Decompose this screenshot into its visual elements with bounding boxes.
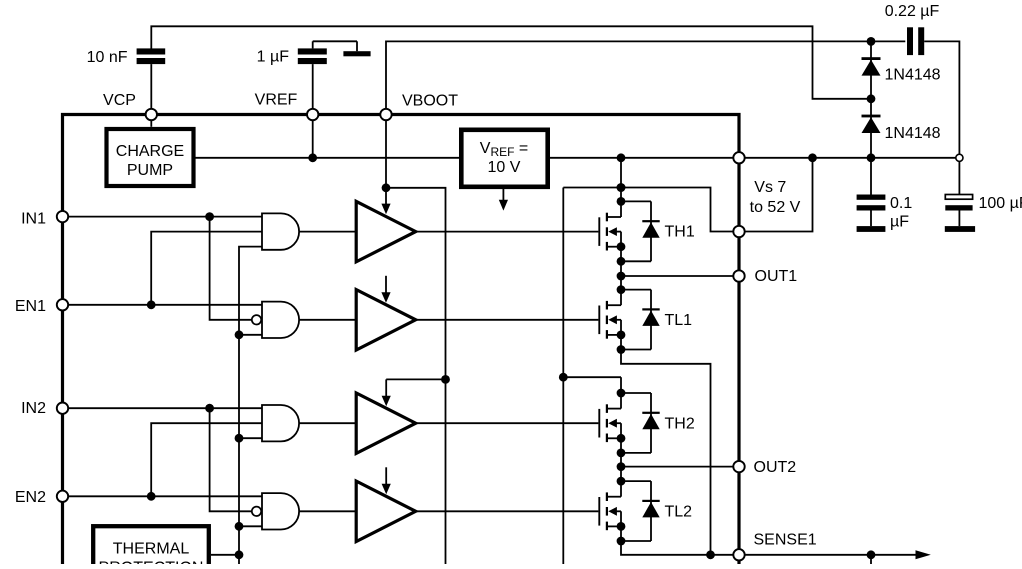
svg-text:1N4148: 1N4148: [885, 125, 941, 142]
wire IN2 row: [68, 407, 262, 409]
capacitor 0.1 uF: [870, 158, 872, 195]
capacitor 1 uF: [298, 48, 327, 54]
svg-text:VBOOT: VBOOT: [402, 92, 458, 109]
AND gate A3: [262, 405, 299, 441]
wire VBOOT internal riser: [385, 120, 387, 188]
wire TL2 source to SENSE1: [621, 541, 733, 555]
svg-text:EN2: EN2: [15, 489, 46, 506]
svg-text:to 52 V: to 52 V: [750, 199, 801, 216]
capacitor 100 uF electrolytic: [958, 162, 960, 195]
wire TH2 drain feed: [563, 376, 621, 378]
wire sense stub down: [870, 555, 872, 564]
pin EN2: [57, 491, 68, 502]
AND gate A2: [262, 302, 299, 338]
pin OUT2: [733, 461, 744, 472]
wire EN2 to gate3 middle: [151, 423, 262, 496]
wire TH1 source to OUT1 to TL1: [620, 261, 622, 289]
pin IN2: [57, 403, 68, 414]
wire gate1 to buffer1: [299, 231, 356, 233]
svg-text:OUT2: OUT2: [754, 459, 797, 476]
svg-text:Vs 7: Vs 7: [754, 179, 786, 196]
AND gate A4: [262, 493, 299, 529]
arrowhead sense: [916, 550, 931, 559]
svg-text:TH2: TH2: [665, 415, 695, 432]
pin VSB: [733, 226, 744, 237]
transistor TL1 with body diode: [598, 306, 600, 335]
wire IN1 row: [68, 216, 262, 218]
svg-text:0.22 µF: 0.22 µF: [885, 3, 940, 20]
node open circle: [956, 154, 963, 161]
wire TH2 drain riser: [620, 377, 622, 393]
wire to gate3 bottom: [239, 437, 262, 439]
diode D2 1N4148: [870, 99, 872, 158]
wire internal Vs rail: [563, 188, 739, 232]
svg-text:CHARGE: CHARGE: [116, 143, 184, 160]
wire gate2 to buffer2: [299, 319, 356, 321]
wire internal ref row: [196, 157, 460, 159]
node Vs: [808, 153, 817, 162]
wire bus to arrow B3: [386, 378, 445, 380]
block CHARGE PUMP: [107, 129, 194, 186]
pin IN1: [57, 211, 68, 222]
wire VREF riser: [312, 64, 314, 109]
wire thermal output: [211, 554, 239, 556]
AND gate A1: [262, 213, 299, 249]
wire VSB loop: [739, 158, 813, 232]
wire from 0.22uF to node: [924, 41, 959, 154]
svg-text:µF: µF: [890, 213, 909, 230]
wire to gate2 bottom: [239, 334, 262, 336]
wire IN1 to gate2 bubble: [210, 217, 252, 320]
ground for 1 uF: [343, 51, 370, 56]
arrow supply buffer B3: [385, 379, 387, 396]
wire EN1 row: [68, 304, 262, 306]
wire OUT1 row: [621, 275, 739, 277]
wire VBOOT to bus 445: [386, 188, 446, 564]
arrow VREF output: [502, 189, 504, 202]
svg-text:IN2: IN2: [21, 400, 46, 417]
svg-text:TL2: TL2: [665, 503, 693, 520]
arrow supply buffer B4: [385, 467, 387, 485]
pin OUT1: [733, 270, 744, 281]
driver buffer B3: [356, 393, 416, 453]
svg-text:100 µF: 100 µF: [979, 195, 1022, 212]
svg-text:1 µF: 1 µF: [257, 48, 290, 65]
svg-text:IN1: IN1: [21, 210, 46, 227]
wire thermal bus: [239, 247, 262, 564]
svg-text:EN1: EN1: [15, 298, 46, 315]
transistor TL2 with body diode: [598, 497, 600, 526]
wire TL1 source to sense bus: [621, 350, 711, 555]
pin VBOOT: [380, 109, 391, 120]
pin Vs: [733, 152, 744, 163]
svg-text:PROTECTION: PROTECTION: [99, 560, 204, 565]
wire buffer1 to gate: [416, 231, 599, 233]
node junction dots top right: [867, 37, 876, 46]
svg-text:PUMP: PUMP: [127, 162, 173, 179]
wire EN2 row: [68, 495, 262, 497]
wire VBOOT top: [386, 41, 905, 108]
driver buffer B4: [356, 481, 416, 541]
svg-text:TL1: TL1: [665, 312, 693, 329]
wire rail down to TH2: [562, 188, 564, 565]
wire SENSE1 external: [745, 554, 917, 556]
svg-text:SENSE1: SENSE1: [754, 532, 817, 549]
pin VREF: [307, 109, 318, 120]
wire to gate4 bottom: [239, 525, 262, 527]
wire VREF pin riser lower: [312, 120, 314, 158]
wire OUT2 row: [621, 466, 739, 468]
arrow supply buffer B1: [385, 188, 387, 205]
wire IN2 to gate4 bubble: [210, 408, 252, 511]
transistor TH1 with body diode: [598, 217, 600, 246]
svg-text:TH1: TH1: [665, 224, 695, 241]
wire Vs row to TH1: [620, 158, 622, 202]
wire VCP top loop: [151, 26, 871, 99]
capacitor 0.22 uF: [907, 27, 913, 55]
svg-text:VCP: VCP: [103, 92, 136, 109]
wire buffer4 to gate: [416, 510, 599, 512]
block VREF 10V: [461, 130, 547, 187]
svg-text:0.1: 0.1: [890, 195, 912, 212]
IC block border: [63, 115, 740, 565]
diode D1 1N4148: [870, 41, 872, 98]
wire buffer3 to gate: [416, 422, 599, 424]
wire EN1 to gate1 middle: [151, 232, 262, 305]
svg-text:10 nF: 10 nF: [87, 49, 128, 66]
ground 100uF: [945, 226, 975, 232]
pin VCP: [146, 109, 157, 120]
wire gate4 to buffer4: [299, 510, 356, 512]
driver buffer B2: [356, 290, 416, 350]
wire buffer2 to gate: [416, 319, 599, 321]
block THERMAL PROTECTION: [93, 526, 209, 569]
svg-text:1N4148: 1N4148: [885, 66, 941, 83]
wire VCP to charge pump: [150, 120, 152, 127]
driver buffer B1: [356, 201, 416, 261]
pin EN1: [57, 299, 68, 310]
svg-text:VREF: VREF: [255, 91, 298, 108]
svg-text:OUT1: OUT1: [755, 268, 798, 285]
svg-text:10 V: 10 V: [488, 159, 521, 176]
wire Vs rail external: [739, 157, 956, 159]
arrow supply buffer B2: [385, 276, 387, 294]
svg-text:THERMAL: THERMAL: [113, 541, 190, 558]
wire TH2 source to OUT2 to TL2: [620, 453, 622, 481]
ground 0.1uF: [857, 226, 886, 232]
pin SENSE1: [733, 549, 744, 560]
transistor TH2 with body diode: [598, 409, 600, 438]
capacitor 10 nF: [137, 48, 166, 54]
wire gate3 to buffer3: [299, 422, 356, 424]
